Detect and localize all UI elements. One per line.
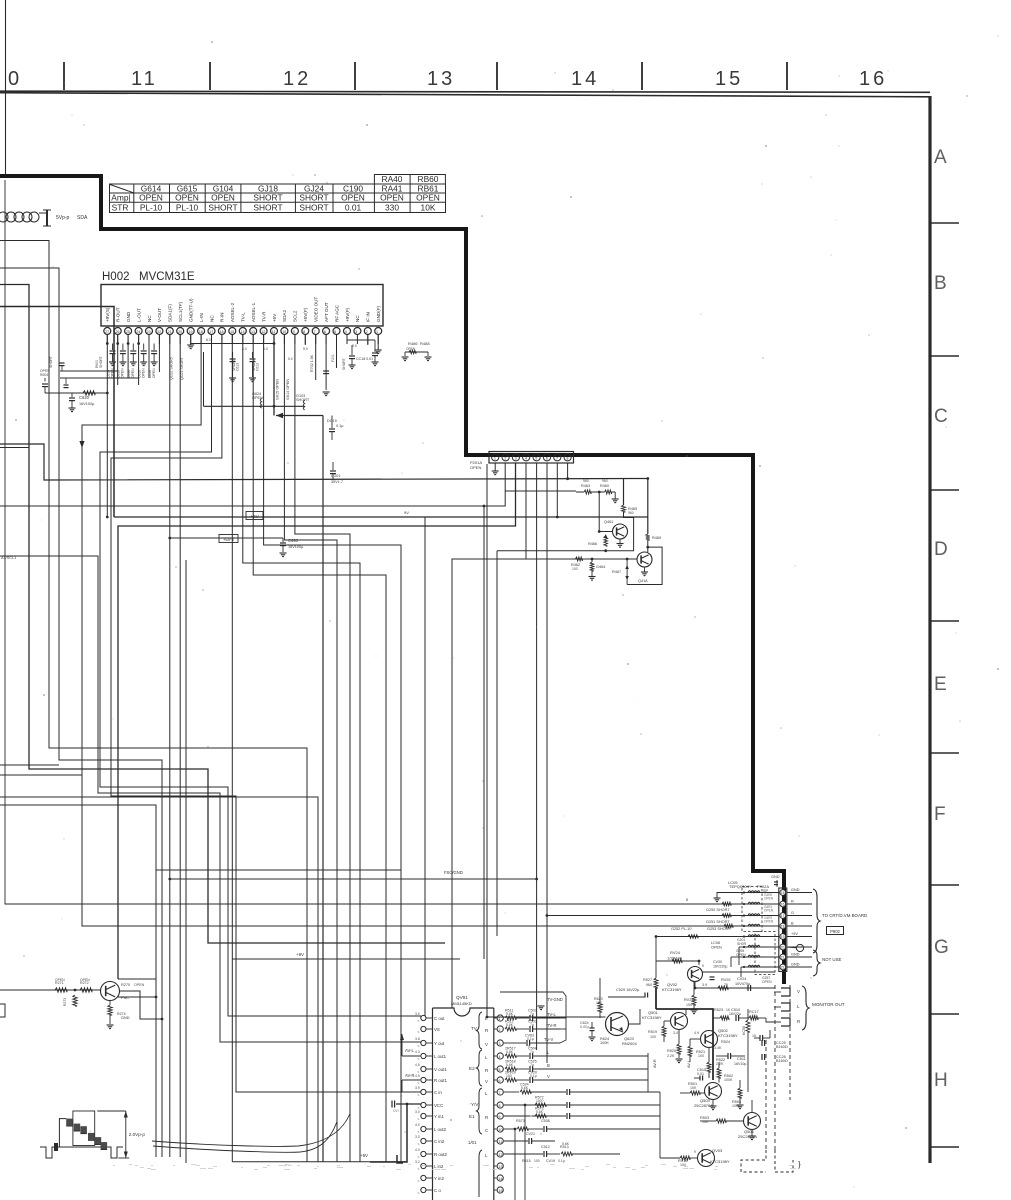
svg-text:100: 100: [572, 567, 578, 571]
svg-text:V-OUT: V-OUT: [157, 308, 162, 322]
svg-text:R463: R463: [581, 484, 590, 488]
svg-text:CV21: CV21: [526, 1132, 535, 1136]
svg-text:R-IN: R-IN: [220, 313, 225, 322]
svg-text:GND: GND: [791, 963, 800, 967]
svg-text:NOT USE: NOT USE: [822, 957, 842, 962]
svg-text:R466: R466: [588, 542, 597, 546]
svg-text:16: 16: [859, 68, 887, 90]
svg-text:L: L: [485, 1153, 488, 1158]
svg-text:OPEN: OPEN: [711, 946, 722, 950]
svg-text:SHORT: SHORT: [253, 193, 282, 203]
svg-text:R273: R273: [63, 998, 67, 1006]
svg-text:13: 13: [427, 68, 455, 90]
svg-text:R520: R520: [667, 1049, 676, 1053]
svg-text:RV24: RV24: [670, 950, 681, 955]
svg-text:0.01: 0.01: [697, 1072, 704, 1076]
svg-text:SHORT: SHORT: [49, 356, 53, 368]
svg-text:15: 15: [499, 1189, 503, 1193]
svg-text:10: 10: [499, 1128, 503, 1132]
svg-text:330: 330: [385, 203, 399, 213]
svg-text:PL-10: PL-10: [176, 203, 199, 213]
svg-text:CC18 0.01: CC18 0.01: [356, 357, 373, 361]
svg-text:KTC3198Y: KTC3198Y: [710, 1159, 730, 1164]
svg-text:H002: H002: [102, 271, 130, 283]
svg-text:B: B: [934, 273, 947, 294]
svg-text:G: G: [934, 937, 949, 958]
svg-text:100: 100: [534, 1159, 540, 1163]
svg-text:TV-L: TV-L: [547, 1012, 557, 1017]
svg-text:4.0: 4.0: [415, 1123, 420, 1127]
svg-text:OPEN: OPEN: [470, 465, 481, 470]
svg-text:+9V(S): +9V(S): [105, 307, 110, 322]
svg-text:21: 21: [781, 955, 785, 959]
svg-text:G464: G464: [596, 565, 605, 569]
svg-text:15: 15: [715, 68, 743, 90]
svg-text:16V220µ: 16V220µ: [713, 965, 727, 969]
svg-text:5.6K: 5.6K: [506, 1023, 514, 1027]
svg-text:+9V(F): +9V(F): [345, 307, 350, 322]
svg-text:6: 6: [324, 330, 326, 334]
svg-text:2.0Vp-p: 2.0Vp-p: [129, 1132, 146, 1137]
svg-text:TV-V: TV-V: [544, 1037, 554, 1042]
svg-text:4.9: 4.9: [415, 1074, 420, 1078]
svg-text:SH0R: SH0R: [737, 942, 747, 946]
svg-text:OPEN: OPEN: [406, 347, 416, 351]
svg-text:TV: TV: [471, 1026, 478, 1031]
svg-text:FSC/GND: FSC/GND: [444, 870, 463, 875]
svg-text:SHORT: SHORT: [299, 203, 328, 213]
svg-text:PL-10: PL-10: [140, 203, 163, 213]
svg-text:E1: E1: [469, 1114, 475, 1119]
svg-text:OPEN: OPEN: [764, 896, 774, 900]
svg-text:10: 10: [282, 330, 286, 334]
svg-text:3: 3: [515, 456, 517, 460]
svg-text:Y out: Y out: [434, 1041, 445, 1046]
svg-text:C620: C620: [79, 395, 90, 400]
svg-text:3.0: 3.0: [415, 1110, 420, 1114]
svg-text:E2: E2: [469, 1066, 475, 1071]
svg-text:V out1: V out1: [434, 1067, 447, 1072]
svg-text:14: 14: [499, 1177, 503, 1181]
svg-text:OPEN: OPEN: [416, 193, 440, 203]
svg-text:7µ: 7µ: [530, 1023, 534, 1027]
svg-text:5.6K: 5.6K: [506, 1012, 514, 1016]
svg-text:22: 22: [157, 330, 161, 334]
svg-text:8.0: 8.0: [263, 347, 268, 351]
svg-text:SDA: SDA: [77, 215, 88, 221]
svg-text:S: S: [418, 1117, 420, 1121]
svg-text:10V470µ: 10V470µ: [735, 982, 751, 986]
svg-text:S: S: [418, 1081, 420, 1085]
svg-text:8: 8: [303, 330, 305, 334]
svg-text:QC02 SHOR5: QC02 SHOR5: [170, 357, 174, 380]
svg-text:5.6K: 5.6K: [506, 1063, 514, 1067]
svg-text:L out1: L out1: [434, 1054, 447, 1059]
svg-text:OPEN: OPEN: [80, 978, 90, 982]
svg-text:E: E: [934, 674, 947, 695]
svg-text:L-IN: L-IN: [199, 313, 204, 322]
svg-text:OPEN: OPEN: [139, 193, 163, 203]
svg-text:GND: GND: [771, 875, 780, 879]
svg-text:17: 17: [781, 914, 785, 918]
svg-text:16: 16: [781, 902, 785, 906]
svg-text:3.2: 3.2: [415, 1160, 420, 1164]
svg-text:3: 3: [499, 1042, 501, 1046]
svg-text:100K: 100K: [600, 1041, 609, 1045]
svg-text:8.0: 8.0: [242, 347, 247, 351]
svg-text:OPEN: OPEN: [380, 193, 404, 203]
svg-text:2: 2: [499, 1028, 501, 1032]
svg-text:OPEN: OPEN: [55, 978, 65, 982]
svg-text:B: B: [547, 1063, 550, 1068]
svg-text:2: 2: [504, 456, 506, 460]
svg-text:R488: R488: [420, 341, 430, 346]
svg-text:R604: R604: [40, 373, 48, 377]
svg-text:7: 7: [499, 1091, 501, 1095]
svg-text:11: 11: [499, 1140, 503, 1144]
svg-text:R523: R523: [714, 1008, 723, 1012]
svg-text:R573: R573: [516, 1119, 525, 1123]
svg-text:OPEN: OPEN: [764, 908, 774, 912]
svg-text:2: 2: [366, 330, 368, 334]
svg-text:VS: VS: [434, 1027, 440, 1032]
svg-text:100: 100: [698, 1054, 704, 1058]
svg-text:G614 OPEN: G614 OPEN: [286, 379, 290, 400]
svg-text:CV30: CV30: [713, 960, 722, 964]
svg-text:G250 SHORT: G250 SHORT: [706, 908, 730, 912]
svg-text:0: 0: [8, 68, 22, 90]
svg-text:R out1: R out1: [434, 1078, 447, 1083]
svg-text:8: 8: [499, 1104, 501, 1108]
svg-text:960: 960: [646, 983, 652, 987]
svg-text:C out: C out: [434, 1016, 445, 1021]
svg-text:C: C: [934, 406, 948, 427]
svg-text:S: S: [418, 1070, 420, 1074]
svg-text:RN2004: RN2004: [622, 1041, 637, 1046]
svg-text:G253 SHORT: G253 SHORT: [707, 927, 731, 931]
svg-text:19: 19: [781, 935, 785, 939]
svg-text:960: 960: [602, 479, 608, 483]
svg-text:S: S: [418, 1179, 420, 1183]
svg-text:24: 24: [136, 330, 140, 334]
svg-text:OPEN: OPEN: [762, 980, 772, 984]
svg-text:R: R: [791, 900, 794, 904]
svg-text:9: 9: [702, 964, 704, 968]
svg-text:13K: 13K: [596, 1001, 603, 1005]
svg-text:CV24: CV24: [737, 977, 747, 981]
svg-text:5.0: 5.0: [288, 357, 293, 361]
svg-text:16V100µ: 16V100µ: [79, 402, 95, 406]
svg-text:OPEN: OPEN: [134, 983, 145, 987]
svg-text:GND: GND: [126, 311, 131, 322]
svg-text:}: }: [798, 1160, 801, 1169]
svg-text:G615 OPEN: G615 OPEN: [276, 379, 280, 400]
svg-text:19: 19: [189, 330, 193, 334]
svg-text:R515: R515: [522, 1159, 531, 1163]
svg-text:GND: GND: [791, 953, 800, 957]
svg-text:B: B: [686, 898, 689, 902]
svg-text:R527: R527: [643, 978, 652, 982]
svg-text:OPEN: OPEN: [252, 396, 263, 400]
svg-text:3.4: 3.4: [673, 1031, 678, 1035]
svg-text:12: 12: [261, 330, 265, 334]
svg-text:Y in2: Y in2: [434, 1176, 444, 1181]
svg-text:B160Ω: B160Ω: [776, 1045, 788, 1049]
svg-text:R524: R524: [721, 1040, 730, 1044]
svg-text:0.47µ: 0.47µ: [580, 1025, 589, 1029]
svg-text:SDA1(F): SDA1(F): [168, 304, 173, 322]
svg-text:8: 8: [566, 456, 568, 460]
svg-text:5.6K: 5.6K: [521, 1086, 529, 1090]
svg-text:9V: 9V: [404, 510, 409, 515]
svg-text:14: 14: [571, 68, 599, 90]
svg-text:G251 SHORT: G251 SHORT: [706, 920, 730, 924]
svg-text:MONITOR OUT: MONITOR OUT: [812, 1002, 845, 1007]
svg-text:MM1145KD: MM1145KD: [451, 1001, 472, 1006]
svg-text:7: 7: [556, 456, 558, 460]
svg-text:SDA2: SDA2: [282, 310, 287, 322]
svg-text:S: S: [418, 1191, 420, 1195]
svg-text:S: S: [418, 1044, 420, 1048]
svg-text:OPEN: OPEN: [142, 368, 146, 378]
svg-text:L-OUT: L-OUT: [136, 308, 141, 322]
svg-text:R: R: [797, 1019, 800, 1024]
svg-text:3.9: 3.9: [702, 983, 707, 987]
svg-text:2.2K: 2.2K: [716, 1062, 724, 1066]
svg-text:S: S: [418, 1093, 420, 1097]
svg-text:GND: GND: [121, 1016, 130, 1020]
svg-text:L out2: L out2: [434, 1127, 447, 1132]
svg-text:5: 5: [535, 456, 537, 460]
svg-text:3.8: 3.8: [415, 1037, 420, 1041]
svg-text:3.9: 3.9: [415, 1086, 420, 1090]
svg-text:9: 9: [499, 1115, 501, 1119]
svg-text:18: 18: [781, 924, 785, 928]
svg-text:0.1µ: 0.1µ: [530, 1074, 537, 1078]
svg-text:G: G: [791, 911, 794, 915]
svg-text:C693: C693: [288, 538, 299, 543]
svg-text:0.01: 0.01: [345, 203, 362, 213]
svg-text:6: 6: [499, 1079, 501, 1083]
svg-text:5: 5: [334, 330, 336, 334]
svg-text:15: 15: [781, 891, 785, 895]
svg-text:23: 23: [147, 330, 151, 334]
svg-text:10K: 10K: [690, 1086, 697, 1090]
svg-text:12: 12: [283, 68, 311, 90]
svg-text:SHORT: SHORT: [253, 203, 282, 213]
svg-text:27: 27: [105, 330, 109, 334]
svg-text:QV03: QV03: [712, 1148, 723, 1153]
svg-text:C512: C512: [541, 1145, 550, 1149]
svg-text:R out2: R out2: [434, 1152, 447, 1157]
svg-text:L: L: [797, 1004, 800, 1009]
svg-text:0.1µ: 0.1µ: [558, 1159, 565, 1163]
svg-text:OPEN: OPEN: [131, 368, 135, 378]
svg-text:4.3: 4.3: [415, 1050, 420, 1054]
svg-text:5Vp-p: 5Vp-p: [56, 215, 70, 221]
svg-text:26: 26: [116, 330, 120, 334]
svg-text:Amp|: Amp|: [111, 193, 130, 203]
svg-text:100: 100: [506, 1074, 512, 1078]
svg-text:SHORT: SHORT: [342, 358, 346, 370]
svg-text:3.0: 3.0: [415, 1135, 420, 1139]
svg-text:STR: STR: [112, 203, 129, 213]
svg-text:3: 3: [355, 330, 357, 334]
svg-text:S: S: [418, 1057, 420, 1061]
svg-text:G252 PL-10: G252 PL-10: [671, 927, 691, 931]
svg-text:R469: R469: [652, 536, 661, 540]
svg-text:Y/V: Y/V: [471, 1102, 479, 1107]
svg-text:4: 4: [499, 1055, 501, 1059]
svg-text:OPEN: OPEN: [211, 193, 235, 203]
svg-text:AV-R: AV-R: [653, 1059, 657, 1068]
svg-text:+5V: +5V: [272, 313, 277, 322]
svg-text:V: V: [485, 1079, 488, 1084]
svg-text:KTC3198Y: KTC3198Y: [662, 987, 682, 992]
svg-text:R270: R270: [121, 983, 130, 987]
svg-text:8.0: 8.0: [206, 338, 211, 342]
svg-text:OPEN: OPEN: [121, 368, 125, 378]
svg-text:C o: C o: [434, 1188, 441, 1193]
svg-text:5.0: 5.0: [352, 344, 357, 348]
svg-text:GND(TT-U): GND(TT-U): [189, 298, 194, 322]
svg-text:SHORT: SHORT: [299, 193, 328, 203]
svg-text:TV-L: TV-L: [241, 312, 246, 322]
svg-text:SHORT: SHORT: [99, 356, 103, 368]
svg-text:960: 960: [583, 479, 589, 483]
svg-text:H: H: [934, 1070, 948, 1091]
svg-text:Q41A: Q41A: [638, 579, 648, 583]
svg-text:OPEN: OPEN: [736, 953, 746, 957]
svg-text:+9V: +9V: [360, 1153, 368, 1158]
svg-text:7µ: 7µ: [530, 1050, 534, 1054]
svg-text:AV-L: AV-L: [687, 1060, 691, 1068]
svg-text:S: S: [418, 1106, 420, 1110]
svg-text:1/01: 1/01: [468, 1140, 477, 1145]
svg-text:+9V: +9V: [791, 932, 798, 936]
svg-text:RV25: RV25: [721, 978, 730, 982]
svg-text:GND: GND: [791, 888, 800, 892]
svg-text:7µ: 7µ: [530, 1063, 534, 1067]
svg-text:4.5: 4.5: [415, 1063, 420, 1067]
svg-text:C: C: [485, 1128, 488, 1133]
svg-text:R467: R467: [612, 570, 621, 574]
svg-text:NC: NC: [147, 315, 152, 322]
svg-text:5.6K: 5.6K: [536, 1110, 544, 1114]
svg-text:13: 13: [251, 330, 255, 334]
svg-text:R-OUT: R-OUT: [116, 307, 121, 322]
svg-text:11: 11: [131, 68, 158, 90]
svg-text:ADSEL-1: ADSEL-1: [251, 302, 256, 322]
svg-text:TV-R: TV-R: [261, 311, 266, 322]
svg-text:RF AGC: RF AGC: [334, 304, 339, 322]
svg-text:QV91: QV91: [456, 995, 468, 1000]
svg-text:SHORT: SHORT: [296, 398, 310, 402]
svg-text:R: R: [485, 1115, 488, 1120]
svg-text:KTC3198Y: KTC3198Y: [718, 1033, 738, 1038]
svg-text:20: 20: [781, 945, 785, 949]
svg-text:SHORT: SHORT: [208, 203, 237, 213]
svg-text:S: S: [418, 1130, 420, 1134]
svg-text:R460: R460: [600, 484, 609, 488]
svg-text:4.9: 4.9: [694, 1031, 699, 1035]
svg-text:16V10µ: 16V10µ: [734, 1062, 746, 1066]
svg-text:SCL1(TF): SCL1(TF): [178, 301, 183, 322]
svg-text:R: R: [485, 1028, 488, 1033]
svg-text:5.0: 5.0: [303, 347, 308, 351]
svg-text:AFT OUT: AFT OUT: [324, 302, 329, 322]
svg-text:L: L: [485, 1091, 488, 1096]
svg-text:R486: R486: [408, 341, 418, 346]
svg-text:3.4K: 3.4K: [714, 1046, 722, 1050]
svg-text:2.2K: 2.2K: [667, 1054, 675, 1058]
svg-text:960: 960: [628, 511, 634, 515]
svg-text:+5V(F): +5V(F): [303, 307, 308, 322]
svg-text:100: 100: [650, 1035, 656, 1039]
svg-text:C in: C in: [434, 1090, 442, 1095]
svg-text:S: S: [418, 1030, 420, 1034]
svg-text:7µ: 7µ: [530, 1012, 534, 1016]
svg-text:6: 6: [546, 456, 548, 460]
svg-text:R702 1.5K: R702 1.5K: [310, 354, 314, 372]
svg-text:7: 7: [314, 330, 316, 334]
svg-text:10K: 10K: [421, 203, 436, 213]
svg-text:+9V: +9V: [250, 514, 259, 519]
svg-text:S: S: [418, 1167, 420, 1171]
svg-text:16: 16: [220, 330, 224, 334]
svg-text:C511: C511: [737, 1057, 746, 1061]
svg-text:L: L: [485, 1055, 488, 1060]
svg-text:+5V-2: +5V-2: [223, 537, 235, 542]
svg-text:5: 5: [499, 1068, 501, 1072]
svg-text:100K: 100K: [724, 1078, 733, 1082]
svg-text:4: 4: [345, 330, 347, 334]
svg-text:VIDEO OUT: VIDEO OUT: [314, 297, 319, 322]
svg-text:17: 17: [209, 330, 213, 334]
svg-text:16V100µ: 16V100µ: [288, 545, 304, 549]
svg-text:12: 12: [499, 1153, 503, 1157]
svg-text:IF IN: IF IN: [366, 312, 371, 322]
svg-text:L in2: L in2: [434, 1164, 444, 1169]
svg-text:Y in1: Y in1: [434, 1114, 444, 1119]
svg-text:LC06: LC06: [711, 941, 720, 945]
svg-text:100?: 100?: [536, 1099, 544, 1103]
svg-text:V: V: [547, 1074, 550, 1079]
svg-text:C613: C613: [256, 363, 260, 371]
svg-text:NC: NC: [209, 315, 214, 322]
svg-text:GND(F): GND(F): [376, 305, 381, 322]
svg-text:SCL2: SCL2: [293, 310, 298, 322]
svg-text:L: L: [547, 1050, 550, 1055]
svg-text:150: 150: [686, 1003, 692, 1007]
svg-text:25: 25: [126, 330, 130, 334]
svg-text:C613: C613: [236, 363, 240, 371]
svg-text:S: S: [418, 1155, 420, 1159]
svg-text:A: A: [934, 147, 947, 168]
svg-text:11: 11: [272, 330, 276, 334]
svg-text:A1/SCL1: A1/SCL1: [1, 556, 16, 560]
svg-text:5.6K: 5.6K: [562, 1142, 570, 1146]
svg-text:OPEN: OPEN: [152, 368, 156, 378]
svg-text:P902: P902: [830, 929, 840, 934]
svg-text:4: 4: [525, 456, 527, 460]
svg-text:20: 20: [178, 330, 182, 334]
svg-text:AV-L: AV-L: [405, 1048, 414, 1053]
svg-text:1K: 1K: [752, 1034, 757, 1038]
svg-text:B160Ω: B160Ω: [776, 1059, 788, 1063]
svg-text:QC01 SHORT: QC01 SHORT: [180, 356, 184, 380]
svg-text:C538: C538: [541, 1119, 550, 1123]
